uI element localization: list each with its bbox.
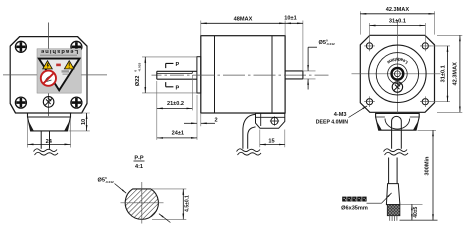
section circle with flat (hatched) [125,189,158,219]
dim 300Min ext top [418,129,437,131]
rear housing chamfer shade left [376,121,382,131]
connector screw cross [270,116,279,125]
svg-text:10: 10 [81,119,87,125]
svg-text:31±0.1: 31±0.1 [440,65,446,82]
dimension 21±0.2 [157,107,193,109]
section mark P bottom [166,82,174,87]
sticker fine print row [40,55,77,56]
P-P underline [134,160,145,162]
shaft axis centerline [152,74,329,76]
detail horizontal centerline [121,202,164,204]
rear cable cap [392,116,402,121]
rear shaft diameter ext lines [303,71,316,79]
dimension 4.5±0.1 [182,189,184,220]
front cable line left [40,131,42,149]
svg-text:15: 15 [268,138,274,144]
front housing chamfer shade right [64,121,70,131]
dimension 2 arrows outside [184,122,197,124]
rear vertical centerline [396,20,398,113]
side cable outer curve [243,114,256,149]
side cable break squiggle [237,149,262,155]
dimension 10±1 [285,22,303,24]
svg-text:P: P [176,86,180,92]
dimension 42.3MAX top [360,13,434,15]
svg-text:-0.012: -0.012 [105,180,114,184]
screw bottom-right [71,97,82,108]
front housing inner line [28,116,71,118]
yellow triangle left bolt glyph [47,63,49,68]
rear bearing boss circle [388,64,408,84]
red prohibition circle [41,71,56,86]
screw bottom-left [15,97,26,108]
rear shaft end circle [395,71,401,77]
dim Ø22 ext lines [142,57,197,93]
front cable break squiggle [34,149,59,155]
svg-text:DEEP 4.0MIN: DEEP 4.0MIN [316,120,348,126]
dimension 300Min [432,130,434,220]
yellow warning triangle left [43,61,53,69]
svg-text:2: 2 [214,117,217,123]
hole top-right [420,41,431,52]
dim 2 ext line right [200,114,202,126]
sticker warning triangle outline [39,59,80,91]
svg-text:40±5: 40±5 [413,206,419,217]
dimension 24±1 [157,137,197,139]
dimension 40±5 [411,204,413,220]
front shaft outline [157,71,197,79]
svg-text:48MAX: 48MAX [234,17,253,23]
dim 24 ext lines [28,119,71,148]
dim 24±1 ext line right [196,95,198,140]
rear ground screw [392,82,402,92]
heatshrink leader [367,193,392,203]
dim bottom ext line [400,219,438,221]
connector divider [260,113,262,126]
label black heatshrink text [342,197,366,202]
connector inner horizontal line [256,116,285,118]
dimension 15 [260,144,285,146]
dim 48MAX ext lines [201,21,285,36]
front horizontal centerline right [81,74,107,76]
dimension 10 (housing height) [86,113,88,131]
prohibition inner glyph [46,76,52,81]
4-M3 leader [349,106,368,118]
svg-text:4-M3: 4-M3 [334,112,347,118]
dim 10 ext lines [68,113,89,131]
hole bottom-left [364,96,375,107]
svg-text:31±0.1: 31±0.1 [389,19,406,25]
Ø22 text rotated [133,63,141,87]
rear endbell line [271,36,273,113]
rear bearing ring [392,68,404,80]
dim 40±5 ext top [401,203,423,205]
ground screw front [43,97,54,108]
svg-text:10±1: 10±1 [284,15,296,21]
dim 4.5±0.1 ext lines [152,189,186,220]
right dim ext lines [429,35,462,112]
rear big outer circle [369,45,426,102]
rear connector housing [376,113,420,130]
rear view body square [360,35,434,112]
front cable line right [49,131,51,149]
svg-text:Ø6x35mm: Ø6x35mm [341,206,368,212]
rear cable upper lines [392,122,402,149]
rear cable lower lines [389,158,398,184]
svg-text:24: 24 [46,139,53,145]
svg-text:300Min: 300Min [425,156,431,176]
Ø5 leader top arrow [307,47,309,71]
hole top-left [364,41,375,52]
front shaft flat line [157,71,193,73]
dim 15 ext lines [260,130,285,148]
front housing chamfer shade left [28,121,34,131]
motor body outline [201,36,285,113]
svg-text:4.5±0.1: 4.5±0.1 [185,195,191,212]
dimension 42.3MAX right [459,35,461,112]
sticker small red text marks [56,64,61,67]
svg-text:Ø5: Ø5 [319,40,326,46]
dimension 31±0.1 right [447,46,449,102]
rear inner circle [376,53,418,95]
dimension Ø22 line [144,57,146,93]
screw top-right [71,41,82,52]
detail Ø5 label [98,176,115,184]
svg-text:4:1: 4:1 [135,164,143,170]
dim 42.3MAX top ext lines [360,11,434,34]
rear housing inner line segments [376,116,420,118]
dim 31±0.1 top ext lines [370,23,426,42]
detail Ø5 leader [115,184,127,194]
Ø5 leader bottom arrow [307,79,309,90]
flat leader arrow lower right [159,214,171,223]
rear horizontal centerline [352,73,441,75]
front vertical centerline above square [48,23,50,49]
section mark P top [166,63,174,68]
wire strands tail [390,216,397,221]
prohibition slash [43,73,53,83]
svg-text:Ø5: Ø5 [98,178,105,184]
front view chamfer corners redraw [10,37,87,113]
side view connector block [256,113,285,128]
dim 10±1 ext line [302,21,304,71]
svg-text:21±0.2: 21±0.2 [167,101,184,107]
label sticker [37,49,81,93]
heat shrink tube [386,184,400,205]
svg-text:-0.012: -0.012 [326,42,335,46]
rear housing chamfer shade right [413,121,419,131]
yellow warning triangle right [64,61,74,69]
dimension 48MAX [201,22,285,24]
Ø5 leader stub [308,46,317,48]
rear housing U cradle [385,119,410,130]
side cable inner curve [248,127,256,149]
rear curved Leadshine text [381,74,413,90]
rear shaft outline [285,71,303,79]
svg-text:42.3MAX: 42.3MAX [386,7,410,13]
front view body square [10,37,87,113]
hole bottom-right [420,96,431,107]
svg-text:24±1: 24±1 [172,131,184,137]
dimension 31±0.1 top [370,25,426,27]
front vertical centerline below sticker [48,93,50,116]
front horizontal centerline left [3,74,37,76]
rear cable break squiggle [384,149,409,155]
Ø5 tolerance label [319,38,336,46]
svg-text:Ø22: Ø22 [135,76,141,87]
front endbell line [214,36,216,113]
dimension 24 [28,143,71,145]
detail vertical centerline [141,182,143,224]
svg-text:42.3MAX: 42.3MAX [453,62,459,86]
svg-text:P: P [176,62,180,68]
knurl section [387,205,400,216]
screw top-left [15,41,26,52]
front connector housing [28,113,71,131]
svg-text:Leadshine: Leadshine [40,48,78,54]
svg-text:-0.033: -0.033 [137,63,141,72]
pilot boss [197,57,201,93]
yellow triangle right excl glyph [69,63,70,68]
dim 21±0.2 ext lines [157,75,193,140]
